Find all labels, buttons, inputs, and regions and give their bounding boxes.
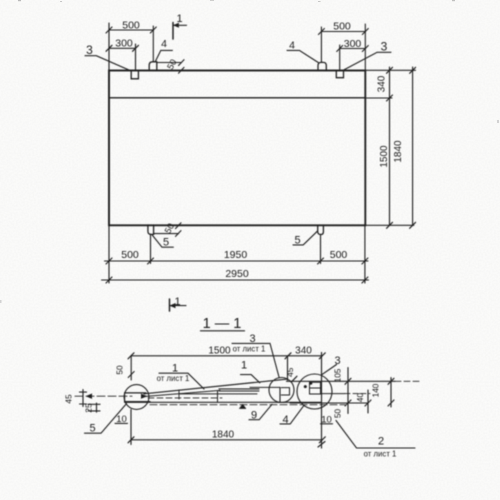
slab top tapered edge: [144, 379, 287, 394]
svg-text:3: 3: [381, 40, 388, 54]
svg-text:1840: 1840: [212, 429, 235, 440]
dim 45 left: vertical line: [82, 390, 84, 407]
svg-text:от лист 1: от лист 1: [364, 449, 397, 458]
dim 45 left: extension ticks: [80, 391, 87, 393]
svg-text:1840: 1840: [393, 140, 404, 163]
right portion: mid line: [322, 393, 346, 395]
tab bottom-right: [318, 226, 324, 235]
tick: [106, 45, 112, 51]
extension notch right center: [339, 45, 341, 70]
svg-text:140: 140: [371, 383, 381, 397]
step vertical drop: [279, 388, 281, 402]
svg-text:45: 45: [64, 394, 74, 404]
tick: [362, 46, 368, 52]
right dims: top edge extension right: [365, 69, 415, 71]
dim 105 right: [347, 368, 349, 414]
tick at its foot: [292, 376, 298, 382]
tick: [318, 29, 324, 35]
extension line at 1500/340 division down to slab: [287, 356, 289, 380]
svg-text:500: 500: [330, 249, 348, 261]
inner line extension right: [365, 97, 392, 99]
panel inner edge line: [109, 97, 365, 99]
dim line vertical 1840: [412, 67, 414, 225]
tick: [362, 29, 368, 35]
extension tab top-left center: [152, 26, 154, 62]
paper grain: [0, 0, 499, 303]
right portion: top line extending right: [287, 380, 396, 382]
reinforcement bar line: [179, 393, 257, 395]
ticks row 2: [106, 277, 112, 283]
tab bottom-left: [148, 226, 154, 235]
right portion: lower line: [290, 402, 368, 404]
svg-text:500: 500: [333, 21, 351, 33]
dim 140 far right: [390, 378, 392, 408]
small dim 50 at bottom-left tab: [154, 233, 179, 235]
title underline: [201, 330, 245, 332]
arrowheads on 396 line: [86, 394, 92, 399]
bottom soffit line: [125, 401, 321, 403]
notch left: [131, 71, 138, 79]
dashed line under soffit: [150, 404, 345, 406]
section mark top: vertical bar: [172, 23, 174, 40]
tick: [150, 27, 156, 33]
dim line row 2: [102, 279, 369, 281]
extension left datum down: [130, 410, 132, 445]
ticks: [128, 437, 134, 443]
embedded plate (double line): [219, 388, 259, 390]
small dim 25 below-left: [88, 403, 100, 405]
svg-text:105: 105: [333, 368, 343, 382]
detail circle left: [124, 385, 149, 410]
svg-text:1: 1: [172, 362, 178, 374]
bottom edge extension right: [365, 224, 414, 226]
anchor dots: [304, 385, 307, 388]
svg-text:45: 45: [285, 367, 295, 377]
svg-text:50: 50: [115, 365, 125, 375]
svg-text:500: 500: [121, 249, 139, 261]
dim line 500 top-left: [109, 29, 153, 31]
svg-text:1 — 1: 1 — 1: [203, 316, 242, 332]
extension tab bottom-right down: [320, 235, 322, 264]
ticks: [410, 67, 416, 73]
dim 40 right: [367, 390, 369, 413]
dim line horizontal to circle: [75, 395, 132, 397]
hidden mid line dashed: [148, 397, 222, 399]
svg-text:от лист 1: от лист 1: [233, 344, 266, 353]
dim line 300 top-left: [109, 47, 136, 49]
tab top-right: [318, 62, 326, 70]
svg-text:500: 500: [122, 19, 140, 31]
svg-text:3: 3: [86, 43, 93, 57]
svg-text:1950: 1950: [224, 249, 248, 261]
slab inner tapered edge: [146, 390, 220, 396]
section mark top: arrowhead: [174, 23, 179, 27]
svg-text:40: 40: [355, 393, 365, 403]
tab top-left: [149, 62, 157, 71]
svg-text:4: 4: [161, 38, 167, 50]
extension tab top-right center: [320, 27, 322, 62]
svg-text:340: 340: [295, 345, 312, 356]
svg-text:300: 300: [115, 38, 133, 50]
svg-text:2: 2: [378, 436, 384, 448]
tick: [337, 46, 343, 52]
dim line vertical 340/1500: [389, 67, 391, 225]
dim line 500 top-right: [321, 31, 365, 33]
section mark bottom: vertical bar: [169, 299, 171, 311]
svg-text:1: 1: [241, 359, 247, 371]
extension line left edge up: [108, 23, 110, 71]
rib small rect in circle right: [310, 382, 321, 394]
tick: [133, 45, 139, 51]
svg-text:5: 5: [89, 422, 95, 434]
svg-text:300: 300: [344, 38, 362, 50]
svg-text:340: 340: [377, 75, 388, 92]
section mark bottom: arrow line: [170, 305, 186, 307]
extension right edge up: [364, 24, 366, 71]
tick at right datum bottom: [318, 442, 325, 448]
ticks row 1: [106, 258, 112, 264]
plate tick down: [217, 391, 219, 402]
ticks: [128, 353, 134, 359]
detail circle mid-right: [269, 378, 294, 403]
slab left end top edge: [125, 392, 146, 394]
svg-text:1: 1: [174, 296, 180, 308]
bar end tick: [178, 390, 180, 399]
ticks: [387, 67, 393, 73]
small dim 50 at top-left tab: [157, 62, 182, 64]
svg-text:1500: 1500: [379, 145, 390, 168]
detail circle right: [297, 374, 332, 409]
bottom dim line of section: [131, 439, 322, 441]
tick: [106, 27, 112, 33]
slab left end bottom edge: [125, 401, 150, 403]
extension right edge down: [364, 226, 366, 284]
extension notch left center: [135, 44, 137, 70]
extension right datum (rib edge): [321, 353, 323, 449]
small angle inside circle mid-right: [281, 388, 289, 395]
svg-text:1: 1: [176, 13, 182, 25]
section mark bottom: arrowhead: [170, 303, 175, 307]
svg-text:4: 4: [289, 40, 295, 52]
weld triangle: [239, 404, 246, 408]
svg-text:2950: 2950: [225, 268, 249, 280]
svg-text:1500: 1500: [208, 345, 231, 356]
small vertical dim 50 left: [130, 356, 132, 380]
slab left end cap: [124, 393, 126, 402]
panel outline: [109, 71, 365, 226]
step line under top edge: [250, 386, 280, 388]
svg-text:от лист 1: от лист 1: [157, 374, 190, 383]
notch right: [336, 71, 343, 78]
dim line 300 top-right: [340, 48, 366, 50]
bottom dims: extension left edge down: [108, 226, 110, 284]
dim line row 1: [105, 260, 369, 262]
svg-text:25: 25: [84, 403, 94, 413]
top dim line of section: [131, 355, 322, 357]
section mark top: arrow line: [173, 24, 186, 26]
extension tab bottom-left down: [150, 235, 152, 264]
svg-text:50: 50: [333, 409, 343, 419]
